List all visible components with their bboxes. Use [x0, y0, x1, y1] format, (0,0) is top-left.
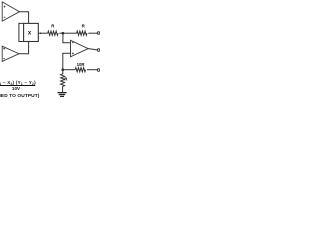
- wire: R2 to terminal T1: [88, 32, 97, 34]
- wire: R3 to ground: [62, 86, 64, 92]
- op-amp U2: [2, 46, 19, 61]
- wire: U3 output to terminal T2: [88, 49, 97, 50]
- wire: node A to U3 inverting input: [63, 33, 71, 43]
- op-amp U3: [71, 40, 89, 57]
- svg-text:R: R: [82, 24, 86, 29]
- resistor 10R: [75, 68, 85, 72]
- wire: node B to 10R: [63, 69, 75, 71]
- svg-text:R: R: [64, 77, 68, 82]
- svg-text:R: R: [51, 24, 55, 29]
- resistor R3: [61, 74, 65, 86]
- node A: [62, 32, 65, 35]
- resistor R1: [48, 31, 58, 35]
- svg-text:10V: 10V: [12, 86, 21, 91]
- op-amp U1: [2, 2, 19, 21]
- wire: U1 output to X1 top: [19, 12, 28, 24]
- multiplier X1: [24, 23, 39, 41]
- wire: 10R to terminal T3: [87, 69, 97, 71]
- terminal T1: [97, 32, 100, 35]
- wire: U2 output to X1 bottom: [19, 42, 29, 54]
- svg-text:IED TO OUTPUT): IED TO OUTPUT): [0, 93, 40, 99]
- node B: [61, 68, 64, 71]
- resistor R2: [77, 31, 87, 35]
- wire: bracket X1 top edge to bottom edge: [19, 23, 24, 41]
- wire: U3 + input to node B: [63, 53, 71, 69]
- formula fraction bar: [0, 85, 35, 87]
- wire: node A to R2: [63, 32, 77, 34]
- terminal T3: [97, 69, 100, 72]
- wire: node B to R3: [62, 70, 64, 74]
- svg-text:10R: 10R: [77, 62, 86, 67]
- ground: [58, 93, 67, 97]
- arrow on X1 output: [40, 32, 42, 34]
- wire: R1 to node A: [59, 32, 63, 34]
- wire: X1 output to R1: [38, 32, 47, 34]
- terminal T2 (output): [97, 49, 100, 52]
